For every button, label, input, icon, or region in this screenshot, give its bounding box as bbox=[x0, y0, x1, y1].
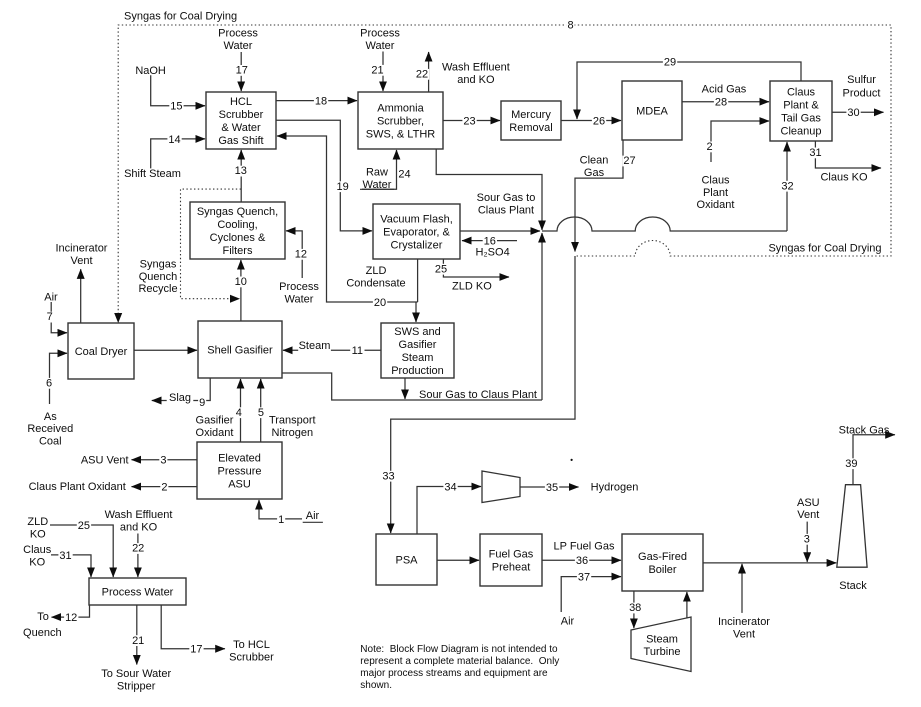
svg-text:SWS and: SWS and bbox=[394, 326, 440, 338]
svg-text:Clean: Clean bbox=[580, 155, 609, 167]
svg-text:Wash Effluent: Wash Effluent bbox=[442, 62, 510, 74]
svg-text:Coal: Coal bbox=[39, 436, 62, 448]
svg-text:Water: Water bbox=[285, 294, 314, 306]
svg-text:Claus Plant: Claus Plant bbox=[478, 205, 534, 217]
svg-text:Tail Gas: Tail Gas bbox=[781, 112, 821, 124]
svg-text:9: 9 bbox=[199, 397, 205, 409]
svg-text:Elevated: Elevated bbox=[218, 452, 261, 464]
svg-text:17: 17 bbox=[236, 65, 248, 77]
svg-text:Gas: Gas bbox=[584, 167, 605, 179]
svg-text:Process: Process bbox=[218, 28, 258, 40]
svg-text:Syngas Quench,: Syngas Quench, bbox=[197, 206, 278, 218]
svg-text:MDEA: MDEA bbox=[636, 105, 668, 117]
svg-text:17: 17 bbox=[190, 644, 202, 656]
svg-text:Claus: Claus bbox=[787, 86, 816, 98]
svg-text:33: 33 bbox=[382, 470, 394, 482]
svg-text:Preheat: Preheat bbox=[492, 561, 531, 573]
svg-text:Air: Air bbox=[44, 292, 58, 304]
svg-text:Cleanup: Cleanup bbox=[781, 125, 822, 137]
svg-text:HCL: HCL bbox=[230, 96, 252, 108]
svg-text:15: 15 bbox=[170, 101, 182, 113]
svg-text:16: 16 bbox=[484, 235, 496, 247]
svg-text:To Sour Water: To Sour Water bbox=[101, 668, 171, 680]
svg-text:Turbine: Turbine bbox=[644, 646, 681, 658]
svg-text:2: 2 bbox=[706, 141, 712, 153]
svg-text:represent a complete material: represent a complete material balance. O… bbox=[360, 656, 559, 667]
svg-text:20: 20 bbox=[374, 297, 386, 309]
svg-text:ZLD KO: ZLD KO bbox=[452, 281, 492, 293]
svg-text:39: 39 bbox=[845, 458, 857, 470]
svg-text:H₂SO4: H₂SO4 bbox=[475, 246, 509, 258]
svg-text:Stripper: Stripper bbox=[117, 680, 156, 692]
svg-text:7: 7 bbox=[47, 311, 53, 323]
svg-text:22: 22 bbox=[416, 68, 428, 80]
svg-text:Process: Process bbox=[360, 28, 400, 40]
svg-text:Steam: Steam bbox=[299, 340, 331, 352]
svg-text:Coal Dryer: Coal Dryer bbox=[75, 346, 128, 358]
svg-text:3: 3 bbox=[160, 455, 166, 467]
svg-text:3: 3 bbox=[804, 534, 810, 546]
svg-text:Note: Block Flow Diagram is n: Note: Block Flow Diagram is not intended… bbox=[360, 644, 558, 655]
svg-text:25: 25 bbox=[435, 263, 447, 275]
svg-text:31: 31 bbox=[59, 550, 71, 562]
svg-text:13: 13 bbox=[235, 165, 247, 177]
svg-text:Vacuum Flash,: Vacuum Flash, bbox=[380, 213, 453, 225]
svg-text:ZLD: ZLD bbox=[27, 516, 48, 528]
svg-text:Syngas for Coal Drying: Syngas for Coal Drying bbox=[124, 10, 237, 22]
svg-text:26: 26 bbox=[593, 115, 605, 127]
svg-text:Vent: Vent bbox=[70, 255, 92, 267]
svg-text:Ammonia: Ammonia bbox=[377, 102, 424, 114]
svg-text:Claus Plant Oxidant: Claus Plant Oxidant bbox=[29, 481, 126, 493]
svg-text:Pressure: Pressure bbox=[217, 465, 261, 477]
svg-text:Product: Product bbox=[843, 87, 881, 99]
svg-text:Process Water: Process Water bbox=[102, 586, 174, 598]
svg-text:8: 8 bbox=[567, 19, 573, 31]
svg-text:34: 34 bbox=[444, 481, 456, 493]
svg-text:30: 30 bbox=[847, 107, 859, 119]
svg-text:6: 6 bbox=[46, 378, 52, 390]
svg-text:Production: Production bbox=[391, 365, 444, 377]
svg-text:Cyclones &: Cyclones & bbox=[210, 232, 266, 244]
svg-text:Air: Air bbox=[306, 510, 320, 522]
svg-text:Hydrogen: Hydrogen bbox=[591, 481, 639, 493]
svg-text:Oxidant: Oxidant bbox=[196, 427, 234, 439]
svg-text:37: 37 bbox=[578, 572, 590, 584]
svg-text:12: 12 bbox=[65, 612, 77, 624]
svg-text:Filters: Filters bbox=[223, 245, 253, 257]
svg-text:Raw: Raw bbox=[366, 167, 388, 179]
svg-text:5: 5 bbox=[258, 407, 264, 419]
svg-text:Sour Gas to Claus Plant: Sour Gas to Claus Plant bbox=[419, 389, 537, 401]
svg-text:38: 38 bbox=[629, 602, 641, 614]
svg-text:Scrubber,: Scrubber, bbox=[377, 115, 424, 127]
svg-text:& Water: & Water bbox=[221, 122, 261, 134]
svg-text:Transport: Transport bbox=[269, 415, 316, 427]
svg-text:shown.: shown. bbox=[360, 680, 392, 691]
svg-text:18: 18 bbox=[315, 95, 327, 107]
svg-text:Stack: Stack bbox=[839, 580, 867, 592]
svg-text:Plant &: Plant & bbox=[783, 99, 819, 111]
svg-text:Process: Process bbox=[279, 281, 319, 293]
svg-text:36: 36 bbox=[576, 555, 588, 567]
svg-text:Crystalizer: Crystalizer bbox=[391, 239, 443, 251]
svg-text:Water: Water bbox=[366, 40, 395, 52]
svg-text:ASU Vent: ASU Vent bbox=[81, 454, 129, 466]
svg-text:Gasifier: Gasifier bbox=[399, 339, 437, 351]
svg-text:Boiler: Boiler bbox=[648, 564, 676, 576]
svg-text:Sour Gas to: Sour Gas to bbox=[477, 192, 536, 204]
svg-text:Removal: Removal bbox=[509, 122, 552, 134]
svg-text:Acid Gas: Acid Gas bbox=[702, 83, 747, 95]
svg-text:KO: KO bbox=[29, 556, 45, 568]
svg-text:Vent: Vent bbox=[797, 509, 819, 521]
svg-text:29: 29 bbox=[664, 57, 676, 69]
svg-text:14: 14 bbox=[168, 134, 180, 146]
svg-text:22: 22 bbox=[132, 543, 144, 555]
svg-text:Water: Water bbox=[224, 40, 253, 52]
svg-text:19: 19 bbox=[336, 181, 348, 193]
svg-text:Claus: Claus bbox=[701, 174, 730, 186]
svg-text:2: 2 bbox=[161, 482, 167, 494]
svg-text:Evaporator, &: Evaporator, & bbox=[383, 226, 450, 238]
svg-text:12: 12 bbox=[295, 248, 307, 260]
svg-text:ASU: ASU bbox=[797, 497, 820, 509]
svg-text:4: 4 bbox=[236, 407, 242, 419]
svg-text:As: As bbox=[44, 411, 57, 423]
svg-text:1: 1 bbox=[278, 514, 284, 526]
svg-text:Steam: Steam bbox=[402, 352, 434, 364]
svg-text:major process streams and equi: major process streams and equipment are bbox=[360, 668, 548, 679]
svg-text:ASU: ASU bbox=[228, 478, 251, 490]
svg-text:KO: KO bbox=[30, 528, 46, 540]
svg-text:Cooling,: Cooling, bbox=[217, 219, 257, 231]
svg-text:LP Fuel Gas: LP Fuel Gas bbox=[554, 541, 615, 553]
svg-text:ZLD: ZLD bbox=[366, 265, 387, 277]
svg-text:32: 32 bbox=[781, 180, 793, 192]
svg-text:Incinerator: Incinerator bbox=[56, 243, 108, 255]
svg-text:25: 25 bbox=[78, 520, 90, 532]
svg-text:11: 11 bbox=[352, 345, 363, 357]
svg-text:Stack Gas: Stack Gas bbox=[839, 424, 890, 436]
svg-text:Quench: Quench bbox=[23, 627, 62, 639]
svg-text:21: 21 bbox=[132, 635, 144, 647]
svg-text:Sulfur: Sulfur bbox=[847, 74, 876, 86]
svg-text:Incinerator: Incinerator bbox=[718, 616, 770, 628]
svg-text:and KO: and KO bbox=[457, 74, 495, 86]
svg-text:24: 24 bbox=[398, 168, 410, 180]
svg-text:Slag: Slag bbox=[169, 392, 191, 404]
svg-text:Gasifier: Gasifier bbox=[196, 415, 234, 427]
svg-text:Syngas: Syngas bbox=[140, 259, 177, 271]
svg-text:Scrubber: Scrubber bbox=[219, 109, 264, 121]
svg-text:SWS, & LTHR: SWS, & LTHR bbox=[366, 128, 436, 140]
svg-text:28: 28 bbox=[715, 97, 727, 109]
svg-text:NaOH: NaOH bbox=[135, 65, 166, 77]
svg-text:Mercury: Mercury bbox=[511, 109, 551, 121]
svg-text:Shift Steam: Shift Steam bbox=[124, 168, 181, 180]
svg-text:Vent: Vent bbox=[733, 628, 755, 640]
svg-text:Claus KO: Claus KO bbox=[820, 171, 868, 183]
svg-text:Nitrogen: Nitrogen bbox=[272, 427, 314, 439]
svg-text:Received: Received bbox=[27, 423, 73, 435]
svg-text:PSA: PSA bbox=[395, 554, 418, 566]
svg-text:10: 10 bbox=[235, 276, 247, 288]
svg-text:Steam: Steam bbox=[646, 634, 678, 646]
svg-text:Air: Air bbox=[561, 616, 575, 628]
svg-text:27: 27 bbox=[623, 155, 635, 167]
svg-text:Condensate: Condensate bbox=[346, 278, 405, 290]
svg-text:Shell Gasifier: Shell Gasifier bbox=[207, 344, 273, 356]
svg-text:Recycle: Recycle bbox=[138, 283, 177, 295]
svg-text:Syngas for Coal Drying: Syngas for Coal Drying bbox=[768, 242, 881, 254]
svg-text:Gas-Fired: Gas-Fired bbox=[638, 551, 687, 563]
svg-text:Claus: Claus bbox=[23, 544, 52, 556]
svg-text:To: To bbox=[37, 611, 49, 623]
svg-text:31: 31 bbox=[809, 147, 821, 159]
svg-text:Plant: Plant bbox=[703, 187, 728, 199]
svg-text:Wash Effluent: Wash Effluent bbox=[105, 509, 173, 521]
svg-text:Fuel Gas: Fuel Gas bbox=[489, 548, 534, 560]
svg-text:Oxidant: Oxidant bbox=[697, 199, 735, 211]
svg-text:Quench: Quench bbox=[139, 271, 178, 283]
svg-text:21: 21 bbox=[371, 64, 383, 76]
svg-text:To HCL: To HCL bbox=[233, 639, 270, 651]
svg-text:Scrubber: Scrubber bbox=[229, 652, 274, 664]
svg-text:and KO: and KO bbox=[120, 522, 158, 534]
svg-text:23: 23 bbox=[463, 115, 475, 127]
svg-text:Gas Shift: Gas Shift bbox=[218, 135, 263, 147]
svg-text:35: 35 bbox=[546, 482, 558, 494]
